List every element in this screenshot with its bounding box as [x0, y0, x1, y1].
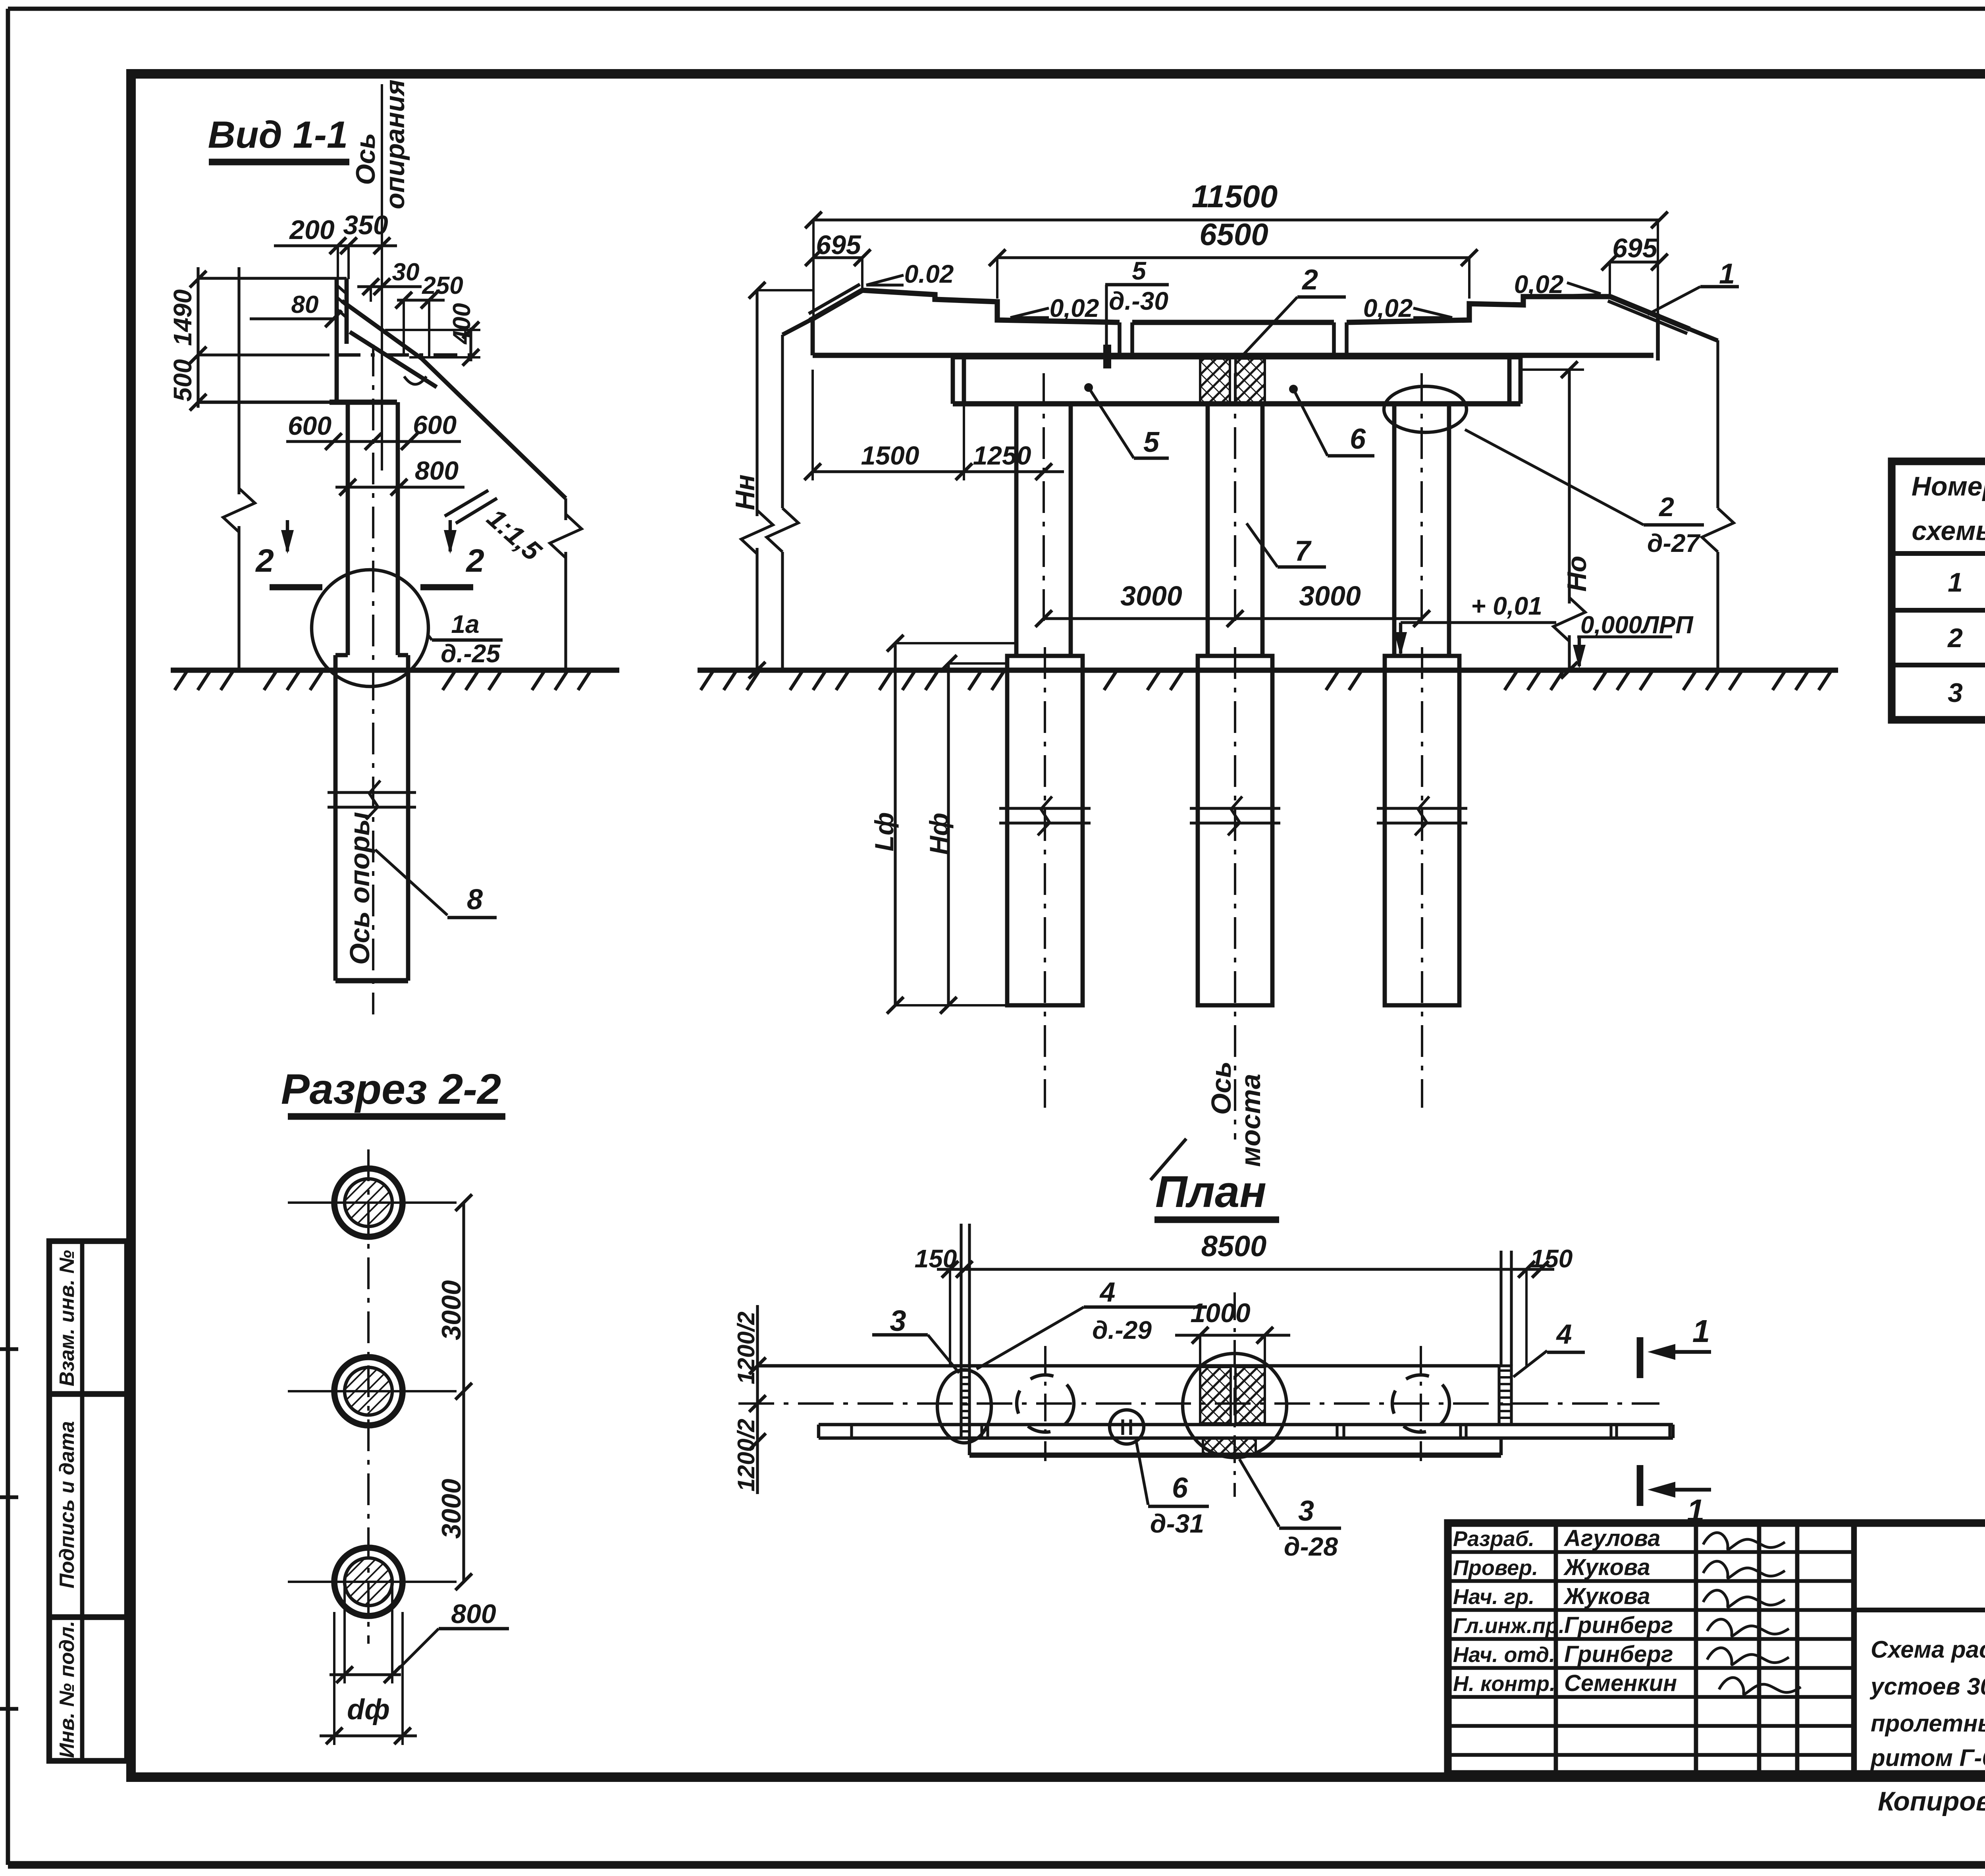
plan slab row1 bottom: [819, 1436, 1673, 1440]
callout 7 column: [1247, 523, 1278, 567]
svg-text:1000: 1000: [1190, 1298, 1250, 1328]
plan pile dashed right: [1392, 1375, 1449, 1432]
pier cap: [951, 358, 955, 404]
svg-text:3000: 3000: [1299, 580, 1361, 611]
sheet outer border: [8, 7, 1985, 11]
embankment cone right: [1690, 329, 1718, 341]
view1 extension mid: [198, 353, 330, 356]
svg-text:3000: 3000: [1120, 580, 1182, 611]
elev dim 11500: [813, 218, 1659, 221]
plan detail circle center: [1183, 1353, 1287, 1458]
svg-text:ритом Г-6,5 + 2×0,75: ритом Г-6,5 + 2×0,75: [1870, 1745, 1985, 1771]
view1 pile: [333, 655, 338, 981]
document number 3.503.1-105.1-6: [1854, 1608, 1985, 1612]
plan slab row1 ends and joints: [817, 1425, 820, 1438]
callout 3 д-28: [1239, 1459, 1279, 1527]
svg-text:30: 30: [392, 258, 420, 286]
svg-text:dф: dф: [347, 1694, 390, 1726]
plan joint strip right: [1499, 1366, 1511, 1425]
svg-text:+ 0,01: + 0,01: [1471, 592, 1542, 620]
slope arrow: [445, 490, 488, 516]
elev dim Lф: [894, 643, 896, 1005]
svg-text:Ось: Ось: [1206, 1061, 1237, 1115]
elev dim Hн: [755, 290, 758, 516]
svg-text:3: 3: [1948, 678, 1963, 708]
detail ellipse 2 д-27: [1384, 386, 1467, 432]
plan dim 8500: [937, 1268, 1554, 1271]
slope mark 0,02 mid-left: [1010, 316, 1049, 319]
svg-text:600: 600: [288, 411, 331, 440]
svg-text:д-31: д-31: [1150, 1509, 1204, 1538]
center pile break: [1190, 807, 1280, 810]
svg-text:Жукова: Жукова: [1563, 1554, 1650, 1580]
section dim 3000 upper: [462, 1203, 465, 1582]
callout 6 cap: [1289, 385, 1298, 393]
view1 ground line: [171, 667, 619, 673]
svg-text:Lф: Lф: [869, 812, 899, 852]
svg-text:3000: 3000: [436, 1280, 466, 1340]
view1 dim 250: [397, 299, 445, 301]
svg-text:Гл.инж.пр.: Гл.инж.пр.: [1453, 1614, 1565, 1638]
svg-text:4: 4: [1099, 1276, 1116, 1307]
view1 cap bottom: [198, 401, 397, 404]
svg-text:2: 2: [1947, 623, 1963, 653]
view1 bearing arc: [404, 376, 426, 384]
svg-text:д.-30: д.-30: [1109, 287, 1168, 315]
svg-text:моста: моста: [1235, 1074, 1266, 1167]
left pile break: [999, 807, 1091, 810]
axis line Ось опирания: [381, 84, 383, 470]
title block left section columns: [1554, 1523, 1558, 1774]
svg-text:Ось: Ось: [351, 133, 381, 185]
left column: [1014, 404, 1019, 655]
plan section mark 1 bottom: [1637, 1465, 1644, 1506]
svg-text:Ось опоры: Ось опоры: [344, 812, 375, 965]
plan dim extensions: [949, 1269, 951, 1366]
svg-text:0,02: 0,02: [1363, 294, 1413, 322]
callout 2 д-27: [1465, 430, 1644, 525]
left stamp cell line 2: [49, 1614, 127, 1620]
elev ground line: [698, 667, 1838, 673]
elev ground hatch: [701, 672, 713, 690]
deck top profile right: [1347, 297, 1610, 322]
left stamp column divider: [80, 1241, 85, 1761]
svg-text:Нн: Нн: [730, 474, 760, 510]
svg-text:1: 1: [1948, 567, 1963, 598]
elev dim 3000 3000: [1044, 617, 1422, 620]
slope mark 0,02 top-right: [1561, 295, 1601, 296]
detail circle 1a: [312, 570, 428, 686]
view1 left dim line 1490-500: [197, 267, 199, 408]
view1 slope edge upper: [342, 301, 422, 359]
svg-text:3: 3: [1298, 1495, 1314, 1527]
svg-text:6500: 6500: [1199, 217, 1268, 252]
view1 cone slope 1:1.5: [422, 359, 566, 498]
svg-text:2: 2: [1301, 264, 1318, 296]
section dim 800: [343, 1584, 346, 1683]
plan cap top edge: [757, 1364, 1499, 1367]
svg-text:д.-25: д.-25: [441, 639, 501, 668]
callout 5 cap: [1084, 383, 1093, 392]
svg-text:1490: 1490: [168, 289, 197, 346]
svg-text:Подпись и дата: Подпись и дата: [56, 1421, 79, 1589]
svg-text:устоев 30К 115.Нн-3-ф под: устоев 30К 115.Нн-3-ф под: [1869, 1673, 1985, 1700]
svg-text:800: 800: [415, 456, 459, 485]
svg-text:800: 800: [451, 1599, 496, 1629]
deck joint right: [1332, 322, 1336, 355]
view1 dim 30: [357, 285, 422, 288]
plan center axis line: [1233, 1292, 1236, 1497]
svg-text:Номер: Номер: [1912, 471, 1985, 501]
svg-text:Копировал: Киц—: Копировал: Киц—: [1878, 1786, 1985, 1816]
pile section top: [334, 1168, 403, 1237]
view1 back wall: [335, 278, 339, 402]
plan center crosshatch lower: [1203, 1438, 1256, 1455]
right column centerline: [1420, 373, 1423, 627]
left stamp cell line 1: [49, 1391, 127, 1397]
svg-text:4: 4: [1556, 1319, 1572, 1350]
svg-text:200: 200: [289, 215, 335, 245]
slope mark 0.02 top-left: [866, 283, 904, 286]
view1 wall hatch: [337, 285, 347, 294]
view1 left extension vertical: [237, 267, 240, 494]
svg-text:11500: 11500: [1192, 179, 1278, 214]
svg-text:2: 2: [255, 543, 274, 579]
view1 column: [346, 402, 350, 655]
slope mark 0,02 mid-right: [1413, 316, 1452, 319]
svg-text:2: 2: [465, 543, 484, 579]
support table frame: [1892, 461, 1985, 720]
svg-text:6: 6: [1172, 1472, 1188, 1504]
section vertical centerline: [367, 1149, 370, 1644]
elev dim 1500 1250: [813, 470, 1064, 473]
right column: [1392, 404, 1397, 655]
svg-text:2: 2: [1658, 492, 1674, 522]
view1 dim 80: [250, 317, 337, 320]
center pile: [1198, 656, 1272, 1005]
deck joint left: [1118, 322, 1122, 355]
svg-text:0.02: 0.02: [904, 260, 954, 288]
svg-text:8500: 8500: [1201, 1230, 1267, 1263]
svg-text:8: 8: [467, 884, 483, 916]
svg-text:Агулова: Агулова: [1563, 1525, 1660, 1551]
right pile break: [1377, 807, 1467, 810]
svg-text:600: 600: [413, 410, 457, 440]
left pile centerline: [1044, 647, 1046, 1108]
left stamp column box: [49, 1241, 127, 1761]
svg-text:Разрез 2-2: Разрез 2-2: [281, 1065, 501, 1113]
view1 dim line 200-350: [274, 244, 397, 247]
plan dim 1200/2 1200/2: [756, 1305, 759, 1494]
svg-text:Нач. гр.: Нач. гр.: [1453, 1585, 1534, 1609]
svg-text:150: 150: [915, 1244, 957, 1273]
svg-text:0,02: 0,02: [1050, 294, 1099, 322]
svg-text:500: 500: [168, 359, 197, 402]
svg-text:3000: 3000: [436, 1479, 466, 1539]
plan small circle 6: [1110, 1410, 1144, 1444]
deck left end face: [782, 319, 813, 335]
plan cap bottom / slabs top: [819, 1423, 1673, 1426]
deck underside: [813, 353, 1654, 358]
plan center crosshatch upper: [1200, 1367, 1231, 1423]
view1 ground hatch: [175, 672, 187, 690]
right pile centerline: [1421, 647, 1423, 1108]
callout 4 д.-29 left: [977, 1307, 1084, 1369]
svg-text:пролетные строения с габа-: пролетные строения с габа-: [1871, 1710, 1985, 1737]
svg-text:1: 1: [1692, 1313, 1710, 1349]
svg-text:695: 695: [816, 230, 861, 260]
left pile: [1007, 656, 1083, 1005]
svg-text:1500: 1500: [861, 441, 919, 470]
center column: [1206, 404, 1210, 655]
view1 slope edge lower: [350, 332, 437, 387]
plan section mark 1 top: [1637, 1337, 1644, 1378]
title block frame: [1448, 1523, 1985, 1774]
plan joint strip left: [961, 1366, 969, 1438]
deck top profile middle: [1132, 320, 1334, 325]
view1 dim 600 600: [286, 440, 461, 443]
plan dim 1000: [1175, 1334, 1290, 1336]
elev dim Нф: [947, 663, 950, 1005]
view1 cone vertical: [564, 498, 567, 520]
right pile: [1385, 656, 1459, 1005]
svg-text:350: 350: [343, 210, 388, 240]
svg-text:Разраб.: Разраб.: [1453, 1527, 1534, 1551]
svg-text:1а: 1а: [451, 610, 479, 638]
title block left section rows: [1448, 1550, 1854, 1554]
svg-text:Н. контр.: Н. контр.: [1453, 1672, 1555, 1696]
svg-text:3: 3: [890, 1304, 906, 1337]
plan cap centerline: [738, 1402, 1659, 1405]
center column centerline: [1234, 373, 1236, 627]
svg-text:Гринберг: Гринберг: [1564, 1641, 1673, 1667]
fold marks on left border: [0, 1347, 18, 1351]
svg-text:Вид 1-1: Вид 1-1: [208, 114, 348, 156]
view1 dim 400: [469, 328, 472, 361]
center pile centerline: [1234, 647, 1236, 1139]
detail ellipse left strip: [937, 1370, 991, 1443]
svg-text:250: 250: [422, 272, 463, 299]
pile section bottom: [334, 1548, 403, 1616]
joint filler dot: [1103, 345, 1111, 368]
elev dim 6500: [997, 256, 1469, 259]
svg-text:Провер.: Провер.: [1453, 1556, 1538, 1580]
svg-text:Семенкин: Семенкин: [1564, 1670, 1677, 1696]
svg-text:1250: 1250: [973, 441, 1031, 470]
svg-text:6: 6: [1350, 423, 1366, 455]
callout 4 right: [1513, 1351, 1547, 1377]
view1 column centerline: [372, 345, 374, 1014]
view1 pile break: [328, 791, 416, 794]
plan pile dashed left: [1017, 1375, 1074, 1432]
svg-text:5: 5: [1132, 256, 1147, 285]
svg-text:Гринберг: Гринберг: [1564, 1612, 1673, 1638]
svg-text:Взам. инв. №: Взам. инв. №: [56, 1250, 79, 1386]
svg-text:150: 150: [1530, 1244, 1573, 1273]
section dim dф: [333, 1612, 335, 1745]
view1 extension wall-top: [198, 277, 347, 280]
svg-text:План: План: [1155, 1167, 1266, 1217]
svg-text:д-27: д-27: [1647, 529, 1701, 557]
deck right end slope: [1610, 297, 1690, 329]
callout 8: [375, 850, 447, 915]
svg-text:695: 695: [1612, 233, 1658, 263]
pile section middle: [334, 1357, 403, 1425]
view1 dim 800: [335, 486, 464, 488]
svg-text:Нач. отд.: Нач. отд.: [1453, 1643, 1555, 1667]
callout 6 д-31: [1136, 1441, 1148, 1505]
title block signatures: [1703, 1533, 1785, 1549]
plan joint risers right: [1499, 1251, 1502, 1366]
deck top profile left: [862, 290, 1120, 322]
svg-text:Инв. № подл.: Инв. № подл.: [56, 1621, 79, 1758]
svg-text:Но: Но: [1562, 556, 1592, 592]
bearing pad crosshatch: [1200, 359, 1230, 404]
elev dim Ho: [1568, 370, 1571, 603]
svg-text:1200/2: 1200/2: [733, 1419, 759, 1492]
svg-text:опирания: опирания: [380, 79, 410, 209]
svg-text:Нф: Нф: [924, 813, 954, 855]
svg-text:0,000ЛРП: 0,000ЛРП: [1580, 611, 1694, 639]
svg-text:схемы: схемы: [1912, 516, 1985, 546]
svg-text:Схема расположения элементов: Схема расположения элементов: [1871, 1636, 1985, 1663]
left column centerline: [1043, 373, 1045, 627]
svg-text:д.-29: д.-29: [1092, 1316, 1152, 1344]
svg-text:80: 80: [291, 291, 319, 318]
svg-text:400: 400: [448, 303, 476, 345]
svg-text:5: 5: [1143, 426, 1160, 458]
deck left end slope: [810, 290, 862, 320]
plan joint risers left: [960, 1224, 962, 1366]
svg-text:Жукова: Жукова: [1563, 1583, 1650, 1609]
plan slab row2: [968, 1438, 971, 1455]
view1 bearing level dash line: [337, 353, 480, 357]
svg-text:7: 7: [1295, 535, 1312, 567]
svg-text:1200/2: 1200/2: [733, 1311, 759, 1384]
svg-text:д-28: д-28: [1284, 1532, 1338, 1561]
